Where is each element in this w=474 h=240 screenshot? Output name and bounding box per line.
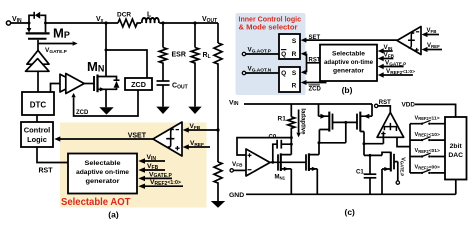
wire RST Control Logic to AOT generator [37,147,68,175]
wire SET comparator to latch S [301,35,397,43]
input VGATE.P arrow to AOT generator [138,171,172,181]
comparator U4 (b) [397,27,421,55]
wire mirror node line [319,122,346,142]
svg-text:VIN: VIN [229,99,239,107]
block Selectable adaptive on-time generator (a) [68,154,137,194]
ground RL [188,107,201,114]
svg-text:(a): (a) [108,210,119,220]
node VG.AOT.P terminal [242,47,279,56]
input VFB arrow to AOT generator [138,163,165,173]
signal VGATE.P tap arrow [38,41,78,55]
svg-text:MN1: MN1 [275,175,286,181]
op-amp U5 [246,149,270,176]
comparator U1 (VSET) [153,122,182,156]
transistor M3 reset switch with VGATE.P gate [382,152,398,195]
node ramp junction [363,142,366,145]
svg-text:R: R [292,51,297,58]
block 2bit DAC [445,117,467,180]
svg-text:VIN: VIN [147,154,157,162]
wire op-amp output gate rail [270,161,306,163]
svg-text:VGATE.P: VGATE.P [385,60,406,67]
svg-text:RST: RST [379,100,391,106]
svg-text:VREF: VREF [427,43,440,49]
svg-text:(b): (b) [342,85,353,95]
svg-text:VFB: VFB [427,28,437,34]
block Control Logic [21,122,53,147]
wire driver to MN gate [84,83,94,85]
input VREF2 arrow to AOT generator [138,179,183,189]
transistor MN1 [275,153,292,194]
svg-text:COUT: COUT [172,83,188,91]
svg-text:VREF2<10>: VREF2<10> [415,132,440,138]
wire Vx column [105,23,107,77]
svg-text:VFB: VFB [232,161,243,168]
svg-text:generator: generator [333,68,364,75]
transistor MN (NMOS) [87,59,106,92]
wire switch bus [409,124,411,173]
node ESR junction [161,21,164,24]
input VIN arrow to AOT generator [138,154,165,164]
capacitor COUT [157,81,188,107]
svg-text:Selectable: Selectable [332,51,365,58]
resistor DCR [46,12,142,27]
node VGATE.P terminal (c) [396,157,405,184]
latch U2 (SR latch, top) [279,34,300,59]
svg-text:R: R [292,83,297,90]
label (b) [342,85,353,95]
gate driver buffers for MP (two triangles) [26,50,50,71]
svg-text:S: S [292,70,297,77]
wire ZCD output to MN driver enable [71,90,138,116]
label GND (c) [229,192,244,199]
wire DAC to GND [455,180,457,195]
node C0 junction on gate rail [271,161,274,164]
ground COUT [156,107,169,114]
node C1 junction [369,154,372,157]
svg-text:RST: RST [39,168,54,175]
block ZCD [125,78,152,90]
svg-text:ESR: ESR [172,52,186,59]
wire VFB to comparator [183,123,218,133]
svg-text:C0: C0 [269,135,277,141]
svg-text:(c): (c) [345,207,356,217]
wire ZCD-bar to latch R [301,80,327,93]
svg-text:R1: R1 [278,116,287,123]
resistor feedback bottom [214,162,222,201]
label VIN (c) [229,99,239,107]
svg-text:adaptive on-time: adaptive on-time [324,59,373,66]
resistor feedback top [214,23,222,162]
wire DTC to MN driver [51,84,61,93]
svg-text:RST: RST [309,57,321,63]
svg-text:VGATE.P: VGATE.P [149,171,172,179]
wire Vx to ZCD block [106,50,147,78]
label (c) [345,207,356,217]
svg-text:ZCD: ZCD [76,110,89,116]
transistor MN2 (mirror) [306,143,319,195]
node: MP drain junction [44,22,47,25]
label (a) [108,210,119,220]
wire VREF to comparator (b) [422,43,443,52]
switch VREF2:00 [410,165,445,174]
switch VREF2:11 [410,115,445,125]
wire L to VOUT [159,22,218,24]
switch VREF2:10 [410,132,445,142]
body diode of MN [106,77,120,90]
wire VIN rail (c) [244,103,372,105]
capacitor C0 [269,135,292,163]
svg-text:generator: generator [86,178,120,185]
node VG.AOT.N terminal [242,66,279,75]
input VIN arrow (b) [378,44,393,54]
svg-text:2bit: 2bit [450,143,463,150]
svg-text:Q: Q [281,70,286,77]
gate driver buffers for MN (two triangles) [60,74,84,94]
wire PMOS gate line [333,121,358,123]
comparator U6 (RST generator) [364,112,410,146]
node Vx branch junction [105,49,108,52]
svg-text:SET: SET [309,35,321,41]
node: MP source junction [28,22,31,25]
input VGATE.P arrow (b) [378,60,407,70]
svg-text:VIN: VIN [384,44,394,51]
svg-text:VREF2<11>: VREF2<11> [415,115,440,121]
input VREF2 arrow (b) [378,68,415,78]
wire feedback to op-amp [237,138,291,155]
svg-text:VSET: VSET [128,132,147,139]
transistor MP1 (PMOS diode-connected) [319,104,333,143]
svg-text:Selectable AOT: Selectable AOT [61,197,131,208]
node mirror drain junction [318,141,321,144]
inductor L [142,12,159,24]
capacitor C1 [356,155,376,194]
wire DTC to Control Logic [36,115,38,122]
label Inner Control logic & Mode selector [239,14,302,31]
svg-text:VREF2<1:0>: VREF2<1:0> [386,68,415,75]
svg-text:DAC: DAC [448,152,463,159]
wire RST generator to latches [301,51,321,75]
svg-text:ZCD: ZCD [309,87,322,93]
Inner Control logic & Mode selector highlight box (panel b) [236,13,306,95]
svg-text:VDD: VDD [402,102,416,109]
wire VIN to MP source [10,22,29,24]
node Vx [96,16,108,25]
svg-text:DTC: DTC [30,100,47,109]
Selectable AOT highlight region (panel a) [60,123,207,208]
svg-text:Iadaptive: Iadaptive [300,108,306,135]
node C0 tap [290,143,293,146]
svg-text:Selectable: Selectable [85,160,121,167]
svg-text:ZCD: ZCD [131,80,146,89]
wire VFB to comparator (b) [422,28,440,37]
svg-text:VOUT: VOUT [202,16,217,24]
transistor MP (PMOS) [26,23,70,41]
node VFB tap [216,128,219,131]
svg-text:Control: Control [24,125,51,134]
svg-text:Q: Q [281,51,286,58]
wire ramp node to reset switch [364,152,391,155]
svg-text:GND: GND [229,192,244,199]
svg-text:VFB: VFB [147,163,159,171]
transistor MP2 (PMOS mirror) [357,104,372,155]
ground feedback divider [211,201,225,208]
svg-text:VFB: VFB [384,52,395,59]
node RST terminal (c) [375,100,392,113]
svg-text:VREF2<1:0>: VREF2<1:0> [150,179,181,187]
wire VSET to Control Logic [54,132,153,141]
latch U3 (SR latch, bottom) [279,67,300,92]
block Selectable adaptive on-time generator (b) [320,45,377,81]
svg-text:& Mode selector: & Mode selector [239,22,298,31]
node gate tie junction [344,121,347,124]
label VDD [402,102,416,109]
svg-text:VREF2<01>: VREF2<01> [415,148,440,154]
resistor R1 [278,104,295,155]
current arrow Iadaptive [296,108,305,137]
node VFB terminal (c) [230,161,246,172]
resistor RL [191,23,210,107]
wire VDD to DAC [415,104,456,117]
node feedback tap [290,136,293,139]
svg-text:VREF2<00>: VREF2<00> [415,165,440,171]
svg-text:VGATE.P: VGATE.P [399,157,405,176]
ground MN source [99,89,113,114]
wire driver to DTC [37,71,39,92]
block DTC [22,92,54,115]
svg-text:RL: RL [203,52,211,60]
wire VREF to comparator [183,140,210,150]
body diode of MP [29,12,46,23]
label VOUT [202,16,217,24]
wire GND rail (c) [246,193,456,195]
resistor ESR [159,23,186,81]
wire MP gate to driver [37,40,39,51]
svg-text:C1: C1 [356,169,364,175]
svg-text:Logic: Logic [27,135,47,144]
svg-text:L: L [147,12,152,19]
input VFB arrow (b) [378,52,395,62]
svg-text:DCR: DCR [117,12,131,19]
svg-text:adaptive on-time: adaptive on-time [76,169,129,176]
switch VREF2:01 [410,148,445,158]
label Selectable AOT [61,197,131,208]
svg-text:S: S [292,38,297,45]
node VIN terminal [6,16,22,25]
node RL junction [193,21,196,24]
